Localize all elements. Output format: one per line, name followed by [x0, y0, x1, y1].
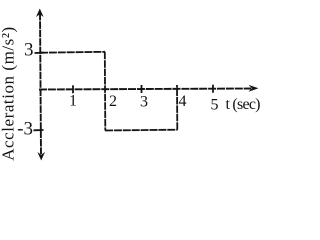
- svg-text:2: 2: [109, 93, 117, 110]
- svg-text:-3: -3: [17, 119, 33, 140]
- tick t=1: [72, 85, 74, 93]
- step drop at t=2: [104, 52, 107, 131]
- svg-text:4: 4: [179, 93, 187, 110]
- y-axis bottom arrowhead: [37, 152, 45, 161]
- tick +3 on y-axis: [35, 52, 45, 54]
- y-axis (vertical, double arrow): [40, 13, 41, 154]
- x-axis (horizontal, arrow right): [39, 89, 251, 90]
- y-axis top arrowhead: [36, 9, 44, 18]
- svg-text:3: 3: [140, 94, 148, 111]
- svg-text:5: 5: [211, 97, 219, 114]
- svg-text:t (sec): t (sec): [226, 96, 261, 113]
- step line +3 from t=0 to t=2: [40, 51, 105, 54]
- tick t=5: [212, 85, 214, 93]
- svg-text:3: 3: [24, 40, 34, 61]
- step line -3 from t=2 to t=4: [105, 129, 178, 132]
- x-axis arrowhead: [249, 85, 259, 92]
- step rise at t=4: [176, 85, 178, 130]
- svg-text:Accleration (m/s²): Accleration (m/s²): [0, 27, 18, 161]
- tick -3 on y-axis: [34, 129, 44, 131]
- svg-text:1: 1: [69, 93, 77, 110]
- tick t=3: [141, 85, 143, 93]
